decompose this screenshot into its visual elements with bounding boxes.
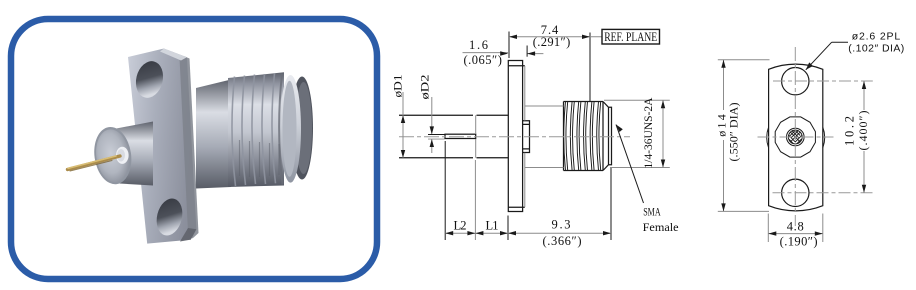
plate bottom-right chamfer — [180, 228, 196, 242]
nut-cap boundary shade — [279, 74, 282, 185]
center contact rings — [787, 128, 805, 146]
plate right side shading — [180, 56, 199, 239]
svg-text:SMA: SMA — [643, 205, 661, 219]
dimension 1/4-36UNS-2A — [604, 97, 670, 168]
boss step on flange right — [523, 121, 530, 153]
svg-text:(.400″): (.400″) — [856, 111, 870, 151]
svg-text:4.8: 4.8 — [787, 220, 804, 234]
REF. PLANE box — [602, 29, 660, 44]
svg-text:REF. PLANE: REF. PLANE — [604, 29, 657, 44]
svg-text:L2: L2 — [454, 219, 467, 233]
nut end bright cap ring — [280, 75, 301, 183]
dielectric white insert — [116, 147, 129, 164]
svg-text:øD1: øD1 — [391, 75, 405, 98]
thread circle (dodecagon) — [775, 117, 815, 157]
flange outline front view — [769, 64, 823, 211]
svg-text:(.291″): (.291″) — [533, 35, 571, 49]
svg-text:Female: Female — [643, 220, 679, 234]
thread groove ribs — [232, 73, 276, 186]
svg-text:1.6: 1.6 — [469, 38, 488, 52]
centerline — [399, 136, 630, 138]
top mounting hole front — [782, 68, 809, 95]
bottom mounting hole front — [782, 179, 809, 206]
svg-text:(.190″): (.190″) — [780, 234, 818, 248]
svg-text:10.2: 10.2 — [843, 116, 857, 146]
right end of connector — [603, 102, 612, 171]
center pin — [445, 134, 476, 138]
svg-text:(.550″ DIA): (.550″ DIA) — [726, 103, 740, 162]
photo panel blue border — [11, 19, 377, 279]
nut end dark rim — [291, 77, 313, 180]
3D connector photo — [68, 49, 314, 244]
dimension 4.8 — [768, 214, 823, 249]
connector body cylinder behind flange — [196, 80, 231, 189]
bottom dimensions L2 L1 9.3 — [445, 141, 611, 248]
flange plate — [128, 49, 196, 244]
dimension oD2 — [418, 75, 445, 154]
o2.6 2PL label with leader — [806, 30, 905, 70]
front cylinder chamfer ring — [91, 125, 135, 187]
dimension 1.6 — [463, 38, 544, 67]
body lines behind flange (light) — [476, 66, 564, 207]
plate top chamfer highlight — [160, 49, 187, 61]
svg-text:L1: L1 — [486, 219, 499, 233]
front cylinder body — [111, 122, 153, 186]
svg-text:øD2: øD2 — [418, 75, 432, 100]
flange side view — [508, 61, 522, 212]
svg-text:9.3: 9.3 — [552, 217, 571, 231]
dimension oD1 — [391, 75, 406, 158]
svg-text:(.366″): (.366″) — [543, 234, 582, 248]
dimension 7.4 REF PLANE — [509, 23, 602, 101]
dielectric body front — [399, 115, 508, 158]
svg-text:1/4-36UNS-2A: 1/4-36UNS-2A — [641, 97, 655, 168]
threaded section outline — [564, 102, 604, 171]
body circle bumps beyond flats — [767, 127, 825, 148]
SMA Female label with leader — [616, 125, 679, 234]
coupling nut threaded section — [228, 72, 284, 187]
gold pin — [68, 156, 121, 170]
svg-text:(.065″): (.065″) — [463, 53, 502, 67]
front cylinder face — [93, 127, 133, 184]
bottom mounting hole — [153, 196, 186, 238]
threads — [564, 102, 601, 171]
top mounting hole — [132, 58, 167, 100]
centerlines right view — [758, 47, 873, 226]
svg-text:(.102″ DIA): (.102″ DIA) — [848, 43, 904, 55]
dimension 10.2 — [843, 81, 870, 193]
svg-text:ø2.6 2PL: ø2.6 2PL — [852, 30, 901, 42]
dimension o14 — [715, 60, 770, 212]
hatched center pin — [789, 130, 802, 143]
